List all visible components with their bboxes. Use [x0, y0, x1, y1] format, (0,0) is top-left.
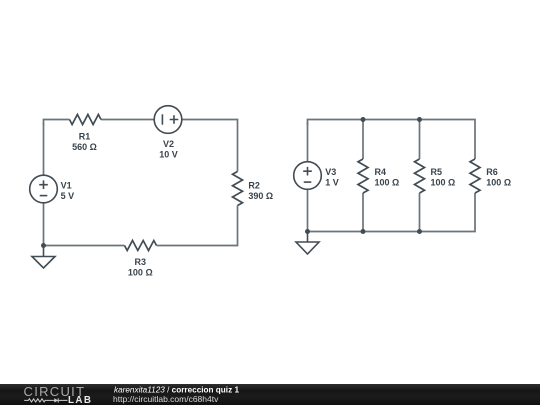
CircuitLab logo: resistor-diode squiggle [24, 398, 67, 402]
svg-text:R3: R3 [135, 257, 147, 267]
resistor R2 [233, 172, 243, 206]
resistor R6 [470, 159, 480, 193]
svg-text:560 Ω: 560 Ω [72, 142, 97, 152]
svg-text:100 Ω: 100 Ω [431, 178, 456, 188]
ground (left circuit) [32, 246, 55, 269]
node: bottom rail dot at ground [305, 229, 310, 234]
wire: R5 branch bottom lead [419, 193, 421, 232]
resistor R1 [70, 115, 102, 125]
node: bottom rail dot at R4 [361, 229, 366, 234]
node: bottom rail dot at R5 [417, 229, 422, 234]
wire: left circuit top rail, TL corner to R1 [44, 120, 70, 126]
svg-text:http://circuitlab.com/c68h4tv: http://circuitlab.com/c68h4tv [113, 394, 219, 404]
svg-text:R4: R4 [375, 167, 387, 177]
svg-text:V3: V3 [325, 167, 336, 177]
node: top rail dot at R4 [361, 117, 366, 122]
svg-text:100 Ω: 100 Ω [128, 267, 153, 277]
wire: R3 left to BL junction node [44, 245, 125, 247]
wire: BL junction up to V1 bottom terminal [43, 203, 45, 246]
resistor R5 [415, 159, 425, 193]
wire: V3 top terminal up to top rail [307, 122, 309, 162]
svg-text:100 Ω: 100 Ω [486, 178, 511, 188]
wire: right circuit top rail [308, 120, 476, 160]
voltage source V3 [294, 162, 322, 190]
wire: V1 top terminal up to TL corner [43, 123, 45, 175]
wire: V2 right terminal to TR corner, down to R2 [182, 120, 238, 172]
wire: R1 to V2 left terminal [101, 119, 154, 121]
svg-text:V1: V1 [61, 180, 72, 190]
resistor R4 [358, 159, 368, 193]
voltage source V1 [30, 175, 58, 203]
voltage source V2 [154, 106, 182, 134]
wire: R2 bottom to BR corner to R3 right [157, 206, 238, 246]
wire: V3 bottom terminal down to bottom rail [307, 189, 309, 231]
svg-text:10 V: 10 V [159, 150, 178, 160]
svg-text:R2: R2 [248, 180, 260, 190]
footer bar [0, 384, 540, 405]
svg-text:R5: R5 [431, 167, 443, 177]
wire: R4 branch top lead [362, 120, 364, 160]
svg-text:V2: V2 [163, 139, 174, 149]
node: BL junction dot [41, 243, 46, 248]
svg-text:R6: R6 [486, 167, 498, 177]
svg-text:R1: R1 [79, 132, 91, 142]
svg-text:100 Ω: 100 Ω [375, 178, 400, 188]
svg-text:390 Ω: 390 Ω [248, 191, 273, 201]
node: top rail dot at R5 [417, 117, 422, 122]
ground (right circuit) [296, 232, 319, 255]
wire: R5 branch top lead [419, 120, 421, 160]
svg-text:1 V: 1 V [325, 177, 339, 187]
wire: R4 branch bottom lead [362, 193, 364, 232]
svg-text:5 V: 5 V [61, 191, 75, 201]
resistor R3 [125, 241, 157, 251]
svg-text:LAB: LAB [68, 395, 92, 405]
wire: right circuit bottom rail [308, 193, 476, 232]
